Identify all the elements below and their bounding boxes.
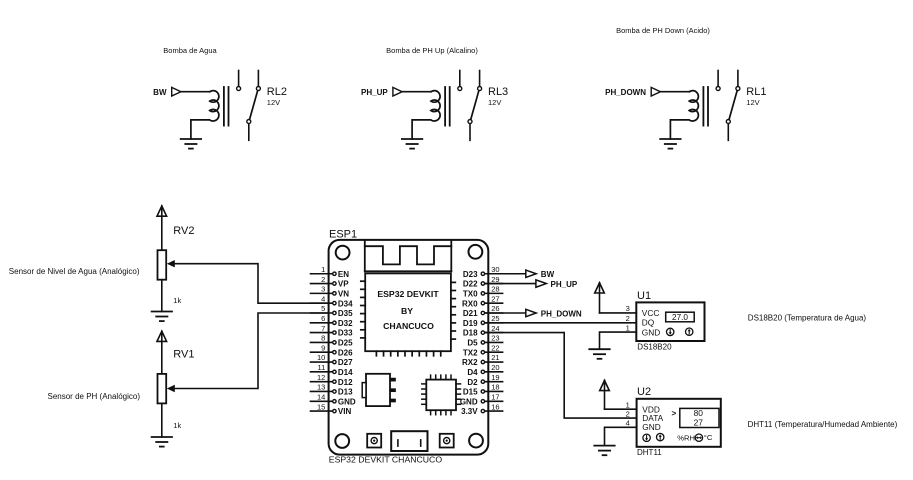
svg-text:28: 28 bbox=[491, 285, 499, 294]
svg-text:D12: D12 bbox=[338, 378, 353, 387]
svg-text:23: 23 bbox=[491, 334, 499, 343]
svg-text:VIN: VIN bbox=[338, 407, 352, 416]
svg-text:12V: 12V bbox=[488, 98, 501, 107]
relay RL3 coil bbox=[412, 91, 440, 139]
svg-text:D15: D15 bbox=[463, 388, 478, 397]
potentiometer RV1 wiper arrow bbox=[167, 385, 175, 392]
svg-text:Bomba de Agua: Bomba de Agua bbox=[163, 46, 217, 55]
relay RL2 core bbox=[224, 87, 229, 126]
ground (RL1 coil) bbox=[660, 139, 680, 149]
svg-text:D23: D23 bbox=[463, 270, 478, 279]
pin 11 D14 bbox=[311, 363, 354, 377]
svg-text:18: 18 bbox=[491, 383, 499, 392]
svg-text:GND: GND bbox=[338, 397, 356, 406]
svg-text:TX2: TX2 bbox=[463, 348, 478, 357]
svg-text:26: 26 bbox=[491, 304, 499, 313]
svg-text:D35: D35 bbox=[338, 309, 353, 318]
pin 12 D12 bbox=[311, 373, 354, 387]
svg-text:RX0: RX0 bbox=[462, 299, 478, 308]
svg-text:BW: BW bbox=[153, 88, 167, 97]
svg-text:16: 16 bbox=[491, 402, 499, 411]
svg-text:DHT11: DHT11 bbox=[637, 448, 662, 457]
svg-text:RX2: RX2 bbox=[462, 358, 478, 367]
wire bbox=[161, 280, 163, 312]
svg-text:EN: EN bbox=[338, 270, 349, 279]
voltage regulator on board bbox=[362, 374, 395, 406]
svg-text:D19: D19 bbox=[463, 319, 478, 328]
svg-text:PH_UP: PH_UP bbox=[361, 88, 388, 97]
svg-text:ESP32 DEVKIT: ESP32 DEVKIT bbox=[377, 289, 439, 299]
svg-text:PH_DOWN: PH_DOWN bbox=[605, 88, 646, 97]
push button right bbox=[440, 434, 454, 448]
svg-text:D25: D25 bbox=[338, 339, 353, 348]
wire (D18 down to U2 DATA) bbox=[485, 333, 637, 418]
svg-text:D32: D32 bbox=[338, 319, 353, 328]
U1 temperature display 27.0 bbox=[666, 312, 695, 322]
wire bbox=[402, 91, 431, 93]
mounting hole top-left bbox=[336, 246, 350, 260]
svg-text:27.0: 27.0 bbox=[672, 313, 688, 322]
relay RL1 coil bbox=[670, 91, 698, 139]
svg-text:21: 21 bbox=[491, 353, 499, 362]
svg-text:D13: D13 bbox=[338, 388, 353, 397]
svg-text:D27: D27 bbox=[338, 358, 353, 367]
pin 27 RX0 bbox=[462, 294, 503, 308]
ground (RL2 coil) bbox=[181, 139, 201, 149]
svg-text:12: 12 bbox=[317, 373, 325, 382]
pin 8 D25 bbox=[311, 334, 354, 348]
svg-text:RV2: RV2 bbox=[173, 225, 194, 237]
pin 1 EN bbox=[311, 265, 350, 279]
wire (RV1 wiper to ESP32 pin 5 / D35) bbox=[175, 313, 333, 389]
PCB antenna meander bbox=[365, 240, 452, 271]
relay RL3 core bbox=[445, 87, 450, 126]
wire bbox=[181, 91, 210, 93]
pin 7 D33 bbox=[311, 324, 354, 338]
pin 22 TX2 bbox=[463, 343, 503, 357]
wire (D19 to U1 DQ) bbox=[485, 322, 636, 324]
svg-text:3: 3 bbox=[626, 304, 630, 313]
svg-text:DS18B20: DS18B20 bbox=[637, 343, 672, 352]
svg-text:DQ: DQ bbox=[642, 318, 655, 328]
svg-text:GND: GND bbox=[642, 422, 660, 432]
ESP32 board outline bbox=[329, 240, 489, 455]
svg-text:Bomba de PH Down (Acido): Bomba de PH Down (Acido) bbox=[616, 26, 710, 35]
svg-text:D33: D33 bbox=[338, 329, 353, 338]
svg-text:1: 1 bbox=[626, 400, 630, 409]
svg-text:PH_DOWN: PH_DOWN bbox=[541, 309, 582, 318]
svg-text:VCC: VCC bbox=[642, 308, 660, 318]
power symbol (U1 VCC) bbox=[595, 283, 605, 293]
pin 13 D13 bbox=[311, 383, 354, 397]
wire bbox=[161, 403, 163, 437]
svg-text:BY: BY bbox=[401, 306, 413, 316]
svg-text:U1: U1 bbox=[637, 290, 651, 302]
mounting hole top-right bbox=[469, 245, 483, 259]
pin 2 VP bbox=[311, 275, 350, 289]
svg-text:7: 7 bbox=[321, 324, 325, 333]
pin 28 TX0 bbox=[463, 285, 503, 299]
pin 17 GND bbox=[460, 392, 503, 406]
relay RL2 switch common terminal bbox=[237, 71, 241, 91]
svg-text:D5: D5 bbox=[467, 339, 478, 348]
potentiometer RV2 body bbox=[158, 250, 167, 280]
svg-text:30: 30 bbox=[491, 265, 499, 274]
relay RL1 core bbox=[703, 87, 708, 126]
ESP32 shield module side pins bbox=[361, 281, 456, 356]
svg-text:Sensor de Nivel de Agua (Analó: Sensor de Nivel de Agua (Analógico) bbox=[9, 267, 140, 276]
svg-text:8: 8 bbox=[321, 334, 325, 343]
output port BW bbox=[526, 270, 536, 277]
mounting hole bottom-left bbox=[335, 434, 349, 448]
svg-text:D21: D21 bbox=[463, 309, 478, 318]
svg-text:20: 20 bbox=[491, 363, 499, 372]
power symbol (above RV1) bbox=[161, 331, 163, 375]
pin 3 VN bbox=[311, 285, 350, 299]
wire (D22 to PH_UP port) bbox=[485, 283, 536, 285]
svg-text:12V: 12V bbox=[746, 98, 759, 107]
U1 down button bbox=[667, 328, 674, 335]
svg-text:1: 1 bbox=[321, 265, 325, 274]
wire bbox=[660, 91, 689, 93]
ESP32 QFP chip on board bbox=[422, 375, 461, 415]
svg-text:3: 3 bbox=[321, 285, 325, 294]
ground (RL3 coil) bbox=[402, 139, 422, 149]
svg-text:>: > bbox=[672, 409, 677, 418]
relay RL1 switch common terminal bbox=[716, 71, 720, 91]
svg-text:25: 25 bbox=[491, 314, 499, 323]
input port BW bbox=[172, 87, 181, 96]
svg-text:Bomba de PH Up (Alcalino): Bomba de PH Up (Alcalino) bbox=[386, 46, 478, 55]
svg-text:PH_UP: PH_UP bbox=[551, 280, 578, 289]
pin 26 D21 bbox=[463, 304, 503, 318]
USB connector bbox=[391, 431, 427, 451]
U2 humidity/temperature display bbox=[680, 408, 719, 427]
relay RL2 switch contact bbox=[247, 71, 261, 141]
svg-text:D2: D2 bbox=[467, 378, 478, 387]
pin 24 D18 bbox=[463, 324, 503, 338]
pin 10 D27 bbox=[311, 353, 354, 367]
pin 23 D5 bbox=[467, 334, 502, 348]
svg-text:VP: VP bbox=[338, 280, 349, 289]
svg-text:%RH: %RH bbox=[677, 434, 695, 443]
svg-text:2: 2 bbox=[321, 275, 325, 284]
pin 5 D35 bbox=[311, 304, 354, 318]
input port PH_DOWN bbox=[651, 87, 660, 96]
U2 down button bbox=[643, 434, 650, 441]
wire (U2 GND) bbox=[605, 427, 637, 445]
potentiometer RV2 wiper arrow bbox=[167, 260, 175, 267]
wire (U1 GND) bbox=[600, 332, 637, 349]
mounting hole bottom-right bbox=[469, 434, 483, 448]
svg-text:4: 4 bbox=[321, 294, 325, 303]
ESP32 shield module body bbox=[365, 273, 451, 351]
svg-text:1k: 1k bbox=[173, 421, 181, 430]
pin 14 GND bbox=[311, 392, 356, 406]
svg-text:24: 24 bbox=[491, 324, 499, 333]
svg-text:2: 2 bbox=[626, 314, 630, 323]
svg-text:1k: 1k bbox=[173, 296, 181, 305]
output port PH_UP bbox=[536, 280, 546, 287]
svg-text:Sensor de PH (Analógico): Sensor de PH (Analógico) bbox=[48, 392, 141, 401]
svg-text:DHT11 (Temperatura/Humedad Amb: DHT11 (Temperatura/Humedad Ambiente) bbox=[748, 420, 898, 429]
svg-text:6: 6 bbox=[321, 314, 325, 323]
ground (U2) bbox=[594, 446, 614, 456]
svg-text:11: 11 bbox=[318, 363, 326, 372]
svg-text:29: 29 bbox=[491, 275, 499, 284]
svg-text:D18: D18 bbox=[463, 329, 478, 338]
relay RL1 switch contact bbox=[726, 71, 740, 141]
U1 up button bbox=[686, 328, 693, 335]
svg-text:U2: U2 bbox=[637, 386, 651, 398]
pin 21 RX2 bbox=[462, 353, 503, 367]
wire (D23 to BW port) bbox=[485, 273, 526, 275]
wire (VDD to power) bbox=[605, 408, 637, 410]
pin 4 D34 bbox=[311, 294, 354, 308]
pin 6 D32 bbox=[311, 314, 354, 328]
svg-text:12V: 12V bbox=[267, 98, 280, 107]
pin 30 D23 bbox=[463, 265, 503, 279]
svg-text:17: 17 bbox=[491, 392, 499, 401]
svg-text:10: 10 bbox=[317, 353, 325, 362]
svg-text:D14: D14 bbox=[338, 368, 353, 377]
svg-text:VN: VN bbox=[338, 289, 349, 298]
svg-text:DS18B20 (Temperatura de Agua): DS18B20 (Temperatura de Agua) bbox=[748, 314, 867, 323]
svg-text:5: 5 bbox=[321, 304, 325, 313]
svg-text:2: 2 bbox=[626, 409, 630, 418]
pin 18 D15 bbox=[463, 383, 503, 397]
pin 19 D2 bbox=[467, 373, 502, 387]
svg-text:3.3V: 3.3V bbox=[461, 407, 478, 416]
push button left bbox=[367, 434, 381, 448]
svg-text:4: 4 bbox=[626, 419, 630, 428]
wire (VCC to power) bbox=[600, 312, 637, 314]
sensor U2 DHT11 body bbox=[637, 399, 721, 447]
ground (RV2) bbox=[152, 312, 172, 322]
pin 9 D26 bbox=[311, 343, 354, 357]
svg-text:D26: D26 bbox=[338, 348, 353, 357]
svg-text:GND: GND bbox=[460, 397, 478, 406]
svg-text:°C: °C bbox=[704, 433, 713, 442]
svg-text:RL1: RL1 bbox=[746, 86, 766, 98]
U2 up button bbox=[657, 433, 664, 440]
power arrow RV2 bbox=[157, 206, 167, 216]
pin 29 D22 bbox=[463, 275, 503, 289]
pin 20 D4 bbox=[467, 363, 502, 377]
relay RL2 coil bbox=[191, 91, 219, 139]
ground (U1) bbox=[589, 349, 609, 359]
svg-text:RL3: RL3 bbox=[488, 86, 508, 98]
svg-text:80: 80 bbox=[694, 408, 704, 418]
output port PH_DOWN bbox=[526, 309, 536, 316]
svg-text:RV1: RV1 bbox=[173, 349, 194, 361]
wire (RV2 wiper to ESP32 pin 4 / D34) bbox=[175, 264, 333, 304]
sensor U1 DS18B20 body bbox=[636, 302, 704, 341]
power symbol (above RV2) bbox=[161, 206, 163, 251]
relay RL3 switch common terminal bbox=[458, 71, 462, 91]
svg-text:13: 13 bbox=[317, 383, 325, 392]
U2 select button bbox=[695, 434, 702, 441]
svg-text:BW: BW bbox=[541, 270, 555, 279]
svg-text:TX0: TX0 bbox=[463, 289, 478, 298]
wire (D21 to PH_DOWN port) bbox=[485, 312, 526, 314]
pin 25 D19 bbox=[463, 314, 503, 328]
svg-text:9: 9 bbox=[321, 343, 325, 352]
svg-text:27: 27 bbox=[694, 417, 704, 427]
potentiometer RV1 body bbox=[158, 374, 167, 404]
svg-text:D22: D22 bbox=[463, 280, 478, 289]
wire (power stem) bbox=[604, 380, 606, 409]
svg-text:ESP1: ESP1 bbox=[329, 229, 357, 241]
svg-text:D34: D34 bbox=[338, 299, 353, 308]
svg-text:22: 22 bbox=[491, 343, 499, 352]
svg-text:14: 14 bbox=[317, 392, 325, 401]
power arrow RV1 bbox=[157, 331, 167, 341]
pin 16 3.3V bbox=[461, 402, 502, 416]
svg-text:GND: GND bbox=[642, 327, 660, 337]
svg-text:15: 15 bbox=[317, 402, 325, 411]
pin 15 VIN bbox=[311, 402, 352, 416]
ground (RV1) bbox=[152, 437, 172, 447]
relay RL3 switch contact bbox=[468, 71, 482, 141]
svg-text:CHANCUCO: CHANCUCO bbox=[383, 321, 434, 331]
svg-text:RL2: RL2 bbox=[267, 86, 287, 98]
input port PH_UP bbox=[393, 87, 402, 96]
wire (power stem) bbox=[599, 283, 601, 313]
svg-text:19: 19 bbox=[491, 373, 499, 382]
svg-text:1: 1 bbox=[626, 324, 630, 333]
power symbol (U2 VDD) bbox=[600, 380, 610, 390]
svg-text:D4: D4 bbox=[467, 368, 478, 377]
svg-text:ESP32 DEVKIT CHANCUCO: ESP32 DEVKIT CHANCUCO bbox=[329, 454, 443, 464]
svg-text:27: 27 bbox=[491, 294, 499, 303]
